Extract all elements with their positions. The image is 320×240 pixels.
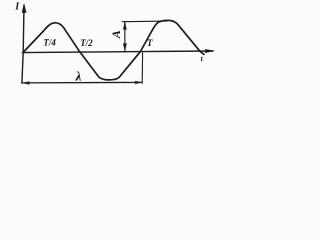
A dimension arrowhead down bbox=[123, 44, 126, 51]
lambda dimension line bbox=[22, 81, 142, 84]
horizontal axis arrowhead bbox=[205, 49, 214, 53]
top reference line at amplitude level bbox=[122, 20, 167, 23]
svg-text:T/4: T/4 bbox=[43, 38, 56, 48]
svg-text:t: t bbox=[201, 54, 204, 63]
A dimension arrowhead up bbox=[123, 22, 126, 30]
svg-text:T/2: T/2 bbox=[80, 38, 93, 48]
sine wave (current waveform) bbox=[23, 20, 204, 79]
svg-text:A: A bbox=[109, 30, 123, 39]
svg-text:λ: λ bbox=[75, 68, 82, 83]
horizontal axis (t axis) bbox=[22, 51, 213, 53]
lambda dimension arrowhead left bbox=[22, 82, 29, 85]
svg-text:T: T bbox=[147, 38, 153, 48]
amplitude dimension line A bbox=[124, 22, 126, 50]
right extension line at end of period T bbox=[141, 53, 143, 83]
vertical axis arrowhead bbox=[22, 4, 26, 13]
lambda dimension arrowhead right bbox=[135, 81, 142, 84]
svg-text:I: I bbox=[14, 2, 20, 13]
vertical axis (I axis) with lower extension to lambda line bbox=[22, 6, 24, 84]
